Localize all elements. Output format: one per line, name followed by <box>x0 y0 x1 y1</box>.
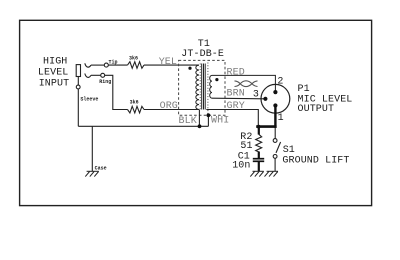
switch S1 lever <box>276 142 281 153</box>
svg-text:INPUT: INPUT <box>39 78 70 89</box>
switch S1 top contact <box>273 139 277 143</box>
wire WHI riser <box>207 115 209 126</box>
svg-text:OUTPUT: OUTPUT <box>298 104 335 115</box>
svg-text:BLK: BLK <box>179 116 197 127</box>
svg-text:Case: Case <box>95 166 107 172</box>
core line 2 <box>203 64 205 110</box>
svg-text:3k6: 3k6 <box>129 55 138 61</box>
svg-text:JT-DB-E: JT-DB-E <box>181 49 224 60</box>
ground rail wire (sleeve to WHI) <box>78 125 208 127</box>
svg-text:1: 1 <box>278 113 284 124</box>
svg-text:Tip: Tip <box>109 59 118 65</box>
wire BRN to XLR pin3 <box>212 97 265 100</box>
transformer T1 dashed box <box>179 60 225 115</box>
wire hook to ring terminal <box>91 74 101 76</box>
core line 3 <box>204 64 206 110</box>
thick wire pin1 drop <box>274 106 276 128</box>
jack J1 plug body <box>76 65 80 77</box>
ground (C1) <box>250 171 263 176</box>
twisted pair symbol <box>235 81 258 87</box>
resistor R2 zigzag <box>256 134 262 152</box>
primary winding <box>196 65 199 109</box>
junction GRY-bar <box>257 125 261 129</box>
capacitor C1 plate 2 <box>253 160 264 162</box>
ground (S1) <box>265 171 279 176</box>
svg-text:3: 3 <box>253 90 259 101</box>
wire RED to XLR pin2 <box>212 75 275 91</box>
wire BLK drop <box>198 110 200 127</box>
svg-text:YEL: YEL <box>159 57 177 68</box>
svg-text:Sleeve: Sleeve <box>80 96 98 102</box>
sleeve terminal circle <box>76 85 80 89</box>
svg-text:WHI: WHI <box>211 116 229 127</box>
svg-text:HIGH: HIGH <box>43 56 67 67</box>
secondary winding <box>210 75 212 98</box>
thick lead C1 to ground <box>258 161 260 171</box>
wire sleeve stem <box>77 77 79 86</box>
svg-text:LEVEL: LEVEL <box>38 67 69 78</box>
switch S1 bottom contact <box>273 155 277 159</box>
junction BLK-rail <box>198 124 202 128</box>
svg-text:BRN: BRN <box>227 89 245 100</box>
capacitor C1 plate 1 <box>253 158 264 160</box>
wire hook to tip terminal <box>91 64 105 66</box>
wire S1 to ground <box>274 159 276 172</box>
faraday shield dotted line (WHI) <box>207 63 209 116</box>
border frame <box>20 20 372 205</box>
pin 2 dot <box>273 90 277 94</box>
svg-text:GROUND LIFT: GROUND LIFT <box>282 156 349 167</box>
core line 1 <box>201 64 203 110</box>
jack tip contact hook <box>85 63 91 67</box>
primary phase dot <box>188 67 191 70</box>
wire GRY <box>206 110 258 126</box>
case branch wire <box>91 126 93 171</box>
XLR connector P1 circle <box>261 84 290 113</box>
pin 3 dot <box>263 97 267 101</box>
wire ring to lower resistor <box>105 75 128 109</box>
svg-text:3k6: 3k6 <box>130 100 139 106</box>
svg-text:ORG: ORG <box>160 101 178 112</box>
svg-text:10n: 10n <box>232 160 250 171</box>
ground (case) <box>85 171 99 176</box>
pin 1 dot <box>273 103 277 107</box>
thick ground bar <box>256 125 276 128</box>
shield dotted line (primary side) <box>199 64 201 110</box>
resistor 3k6 (ring) <box>128 106 145 113</box>
secondary phase dot <box>215 78 218 81</box>
svg-text:2: 2 <box>277 76 283 87</box>
ring terminal circle <box>101 73 105 77</box>
wire resistor to YEL / transformer <box>144 64 199 66</box>
svg-text:RED: RED <box>227 68 245 79</box>
resistor 3k6 (tip) <box>128 62 145 69</box>
label HIGH LEVEL INPUT <box>38 56 69 89</box>
junction WHI-shield <box>207 113 211 117</box>
wire tip terminal to resistor <box>108 64 127 66</box>
wire bar to switch S1 <box>274 128 276 138</box>
svg-text:GRY: GRY <box>227 101 245 112</box>
jack ring contact hook <box>85 74 91 78</box>
thick lead to R2 <box>258 127 260 135</box>
wire R2 to C1 <box>258 152 260 159</box>
svg-text:Ring: Ring <box>99 79 111 85</box>
tip terminal circle <box>104 63 108 67</box>
wire resistor to ORG / transformer <box>144 109 199 111</box>
svg-text:S1: S1 <box>283 145 295 156</box>
wire sleeve down to ground rail <box>77 89 79 126</box>
